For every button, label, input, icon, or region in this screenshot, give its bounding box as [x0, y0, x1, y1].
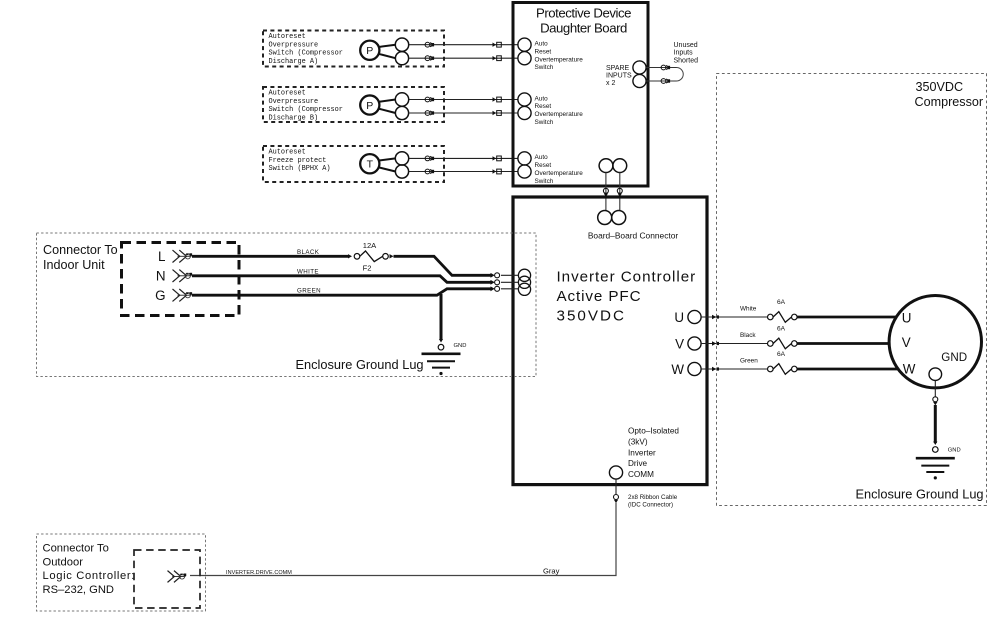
svg-text:P: P: [366, 45, 373, 57]
svg-text:U: U: [674, 310, 684, 325]
fuse F2 12A: [348, 241, 394, 273]
protective device daughter board U2: [513, 3, 648, 187]
fuse 6A phase W: [768, 351, 798, 374]
wire spare input 1 shorting loop: [646, 65, 676, 70]
svg-text:COMM: COMM: [628, 470, 654, 479]
wire BLACK crimp at inverter: [491, 273, 519, 278]
inverter AC input pins: [518, 269, 530, 295]
wire spare input 2 shorting loop: [646, 79, 676, 84]
svg-text:W: W: [903, 362, 916, 377]
wire WHITE N: [192, 276, 491, 283]
svg-text:Inverter Controller: Inverter Controller: [557, 269, 697, 286]
label 2x8 ribbon cable: [628, 494, 678, 509]
wire Green phase W to motor: [701, 367, 898, 372]
svg-text:Logic Controller:: Logic Controller:: [43, 570, 136, 582]
switch enclosure box S1: [263, 31, 444, 67]
label opto-isolated inverter drive comm: [628, 427, 679, 480]
wire S1 terminal 1 to daughter board: [409, 42, 518, 47]
label connector to indoor unit: [43, 243, 118, 272]
svg-text:Gray: Gray: [543, 567, 560, 576]
spare inputs label: [606, 65, 632, 87]
spare input pins: [633, 61, 646, 88]
svg-text:Connector To: Connector To: [43, 243, 118, 257]
svg-text:WHITE: WHITE: [297, 268, 319, 275]
pin RS-232: [168, 571, 187, 583]
svg-text:6A: 6A: [777, 326, 786, 333]
svg-text:INPUTS: INPUTS: [606, 73, 632, 80]
wire motor ground: [933, 381, 939, 453]
enclosure ground lug (compressor): [916, 458, 955, 479]
svg-text:Opto–Isolated: Opto–Isolated: [628, 427, 679, 436]
svg-text:P: P: [366, 100, 373, 112]
outdoor controller outer box: [37, 534, 206, 611]
motor ground pin: [929, 368, 942, 381]
svg-text:Overtemperature: Overtemperature: [535, 111, 584, 118]
svg-text:(IDC Connector): (IDC Connector): [628, 502, 673, 509]
daughter board bottom connector pins: [599, 159, 627, 173]
svg-text:Active PFC: Active PFC: [557, 288, 642, 305]
svg-text:Protective Device: Protective Device: [536, 5, 631, 20]
svg-text:U: U: [902, 311, 912, 326]
wire S3 terminal 2 to daughter board: [409, 169, 518, 174]
svg-text:Switch (Compressor: Switch (Compressor: [269, 50, 343, 58]
svg-text:Indoor Unit: Indoor Unit: [43, 258, 105, 272]
svg-text:Inputs: Inputs: [674, 50, 694, 57]
pin N: [156, 269, 192, 284]
daughter board input pins row 1: [518, 38, 531, 65]
svg-text:Reset: Reset: [535, 162, 552, 169]
svg-text:6A: 6A: [777, 299, 786, 306]
svg-text:Overpressure: Overpressure: [269, 41, 319, 49]
svg-text:12A: 12A: [363, 241, 377, 250]
wire BLACK L line segment 2: [394, 256, 491, 275]
label auto reset overtemperature switch row 1: [535, 41, 584, 72]
svg-text:Autoreset: Autoreset: [269, 90, 306, 98]
inverter COMM pin: [609, 466, 622, 479]
svg-text:350VDC: 350VDC: [557, 308, 626, 325]
svg-text:INVERTER.DRIVE.COMM: INVERTER.DRIVE.COMM: [226, 570, 292, 576]
inverter output pin W: [671, 362, 701, 377]
inverter output pin U: [674, 310, 701, 325]
svg-text:Discharge B): Discharge B): [269, 114, 319, 122]
outdoor connector J2: [134, 550, 200, 608]
svg-text:Enclosure Ground Lug: Enclosure Ground Lug: [856, 487, 984, 502]
svg-text:Compressor: Compressor: [915, 95, 984, 109]
wire board-board pin 1: [603, 173, 608, 211]
svg-text:Daughter Board: Daughter Board: [540, 21, 627, 36]
pin L: [158, 249, 192, 264]
wire S2 terminal 2 to daughter board: [409, 111, 518, 116]
svg-text:White: White: [740, 306, 757, 313]
svg-text:Freeze protect: Freeze protect: [269, 157, 327, 165]
label connector to outdoor logic controller: [43, 543, 136, 596]
inverter output pin V: [675, 337, 701, 352]
shorting loop arc: [677, 68, 684, 82]
wire S2 terminal 1 to daughter board: [409, 97, 518, 102]
svg-text:Enclosure Ground Lug: Enclosure Ground Lug: [296, 357, 424, 372]
svg-text:V: V: [675, 337, 684, 352]
svg-text:2x8 Ribbon Cable: 2x8 Ribbon Cable: [628, 494, 678, 501]
svg-text:6A: 6A: [777, 351, 786, 358]
svg-text:Switch: Switch: [535, 178, 554, 185]
svg-text:Reset: Reset: [535, 48, 552, 55]
svg-text:Reset: Reset: [535, 103, 552, 110]
svg-text:Auto: Auto: [535, 95, 549, 102]
svg-text:Auto: Auto: [535, 41, 549, 48]
svg-text:Switch: Switch: [535, 64, 554, 71]
switch S2 contact terminals: [395, 93, 408, 120]
ground crimp: [438, 339, 444, 350]
wire BLACK L line segment 1: [192, 255, 348, 258]
svg-text:Connector To: Connector To: [43, 543, 109, 555]
label 350VDC compressor: [915, 80, 984, 109]
pressure/temperature switch S3 sensor bulb: [360, 154, 395, 173]
switch S3 contact terminals: [395, 152, 408, 178]
svg-text:Autoreset: Autoreset: [269, 149, 306, 157]
svg-text:BLACK: BLACK: [297, 249, 320, 256]
switch enclosure box S2: [263, 87, 444, 122]
svg-text:SPARE: SPARE: [606, 65, 630, 72]
wire GREEN G: [192, 289, 491, 295]
label auto reset overtemperature switch row 3: [535, 154, 584, 185]
svg-text:GND: GND: [948, 448, 961, 454]
wire ground tap from GREEN: [440, 294, 443, 340]
fuse 6A phase U: [768, 299, 798, 322]
svg-text:Switch (Compressor: Switch (Compressor: [269, 106, 343, 114]
svg-text:Overtemperature: Overtemperature: [535, 56, 584, 63]
daughter board input pins row 3: [518, 152, 531, 178]
svg-text:RS–232, GND: RS–232, GND: [43, 584, 115, 596]
wire GREEN crimp at inverter: [491, 286, 519, 291]
svg-text:Green: Green: [740, 358, 758, 365]
svg-text:L: L: [158, 249, 165, 264]
pin G: [155, 288, 192, 303]
svg-text:Switch (BPHX A): Switch (BPHX A): [269, 165, 331, 173]
svg-text:Black: Black: [740, 332, 756, 339]
svg-text:W: W: [671, 362, 684, 377]
indoor unit outer enclosure box: [37, 233, 537, 377]
svg-text:GND: GND: [941, 351, 967, 364]
svg-text:Outdoor: Outdoor: [43, 556, 84, 568]
wire S3 terminal 1 to daughter board: [409, 156, 518, 161]
svg-text:350VDC: 350VDC: [916, 80, 964, 94]
pressure/temperature switch S2 sensor bulb: [360, 95, 395, 114]
enclosure ground lug (indoor): [422, 354, 461, 375]
label unused inputs shorted: [674, 42, 699, 65]
svg-text:Drive: Drive: [628, 459, 648, 468]
svg-text:Switch: Switch: [535, 119, 554, 126]
svg-text:N: N: [156, 269, 166, 284]
fuse 6A phase V: [768, 326, 798, 349]
indoor unit connector J1: [122, 243, 240, 316]
compressor enclosure box: [717, 74, 987, 506]
svg-text:Auto: Auto: [535, 154, 549, 161]
svg-text:T: T: [367, 159, 374, 171]
wire S1 terminal 2 to daughter board: [409, 56, 518, 61]
wire COMM ribbon cable: [190, 479, 619, 575]
svg-text:Shorted: Shorted: [674, 57, 699, 64]
svg-text:F2: F2: [363, 264, 372, 273]
switch enclosure box S3: [263, 146, 444, 182]
svg-text:Autoreset: Autoreset: [269, 33, 306, 41]
wire WHITE crimp at inverter: [491, 280, 519, 285]
svg-text:GREEN: GREEN: [297, 288, 321, 295]
svg-text:Overtemperature: Overtemperature: [535, 170, 584, 177]
svg-text:Discharge A): Discharge A): [269, 58, 319, 66]
label auto reset overtemperature switch row 2: [535, 95, 584, 126]
svg-text:Unused: Unused: [674, 42, 698, 49]
svg-text:Overpressure: Overpressure: [269, 98, 319, 106]
daughter board input pins row 2: [518, 93, 531, 120]
motor M1 (compressor): [889, 296, 981, 388]
wire Black phase V to motor: [701, 341, 890, 346]
svg-text:GND: GND: [454, 343, 467, 349]
svg-text:x 2: x 2: [606, 80, 615, 87]
svg-text:V: V: [902, 335, 911, 350]
svg-text:(3kV): (3kV): [628, 437, 648, 446]
svg-text:Inverter: Inverter: [628, 448, 656, 457]
inverter controller U1: [513, 197, 707, 485]
svg-text:Board–Board Connector: Board–Board Connector: [588, 231, 679, 241]
svg-text:G: G: [155, 288, 165, 303]
wire White phase U to motor: [701, 315, 896, 320]
switch S1 contact terminals: [395, 38, 408, 65]
wire board-board pin 2: [617, 173, 622, 211]
inverter board-board connector pins: [598, 211, 626, 225]
pressure/temperature switch S1 sensor bulb: [360, 41, 395, 60]
